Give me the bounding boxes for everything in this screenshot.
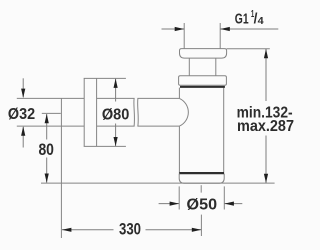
pipe centerline tick	[42, 112, 61, 114]
Ø80 top arrowhead (up)	[114, 79, 118, 88]
Ø50 right arrowhead (left)	[224, 202, 234, 206]
pipe break gap	[135, 98, 138, 127]
Ø80 top extension line / flange top edge	[84, 77, 126, 79]
330 right arrowhead (right)	[192, 228, 202, 232]
svg-text:G1: G1	[235, 11, 249, 28]
bottle shoulder thick line	[180, 86, 225, 88]
80 dim line upper	[46, 114, 48, 140]
Ø80 bottom extension line / flange bottom edge	[84, 145, 126, 147]
slip nut	[179, 76, 227, 86]
svg-text:80: 80	[38, 141, 54, 159]
Ø80 dim line lower	[115, 124, 117, 147]
inlet pipe end bulge	[179, 98, 188, 126]
Ø50 center leader upper	[200, 185, 202, 192]
Ø32 dim line bottom	[22, 127, 24, 148]
svg-text:Ø32: Ø32	[8, 106, 35, 123]
Ø50 left extension line	[178, 186, 180, 209]
bottle bottom cap	[179, 174, 224, 184]
80 bottom arrowhead (down)	[45, 174, 49, 183]
80 top arrowhead (up)	[45, 114, 49, 123]
inlet pipe horizontal (bottom edge with left extension)	[17, 125, 180, 127]
min/max bottom arrowhead (down)	[264, 174, 268, 183]
tailpipe left wall	[183, 23, 185, 49]
G1 1/4 dim line right	[220, 28, 278, 30]
svg-text:Ø50: Ø50	[187, 197, 218, 214]
neck left wall	[188, 58, 190, 76]
Ø50 left arrowhead (right)	[170, 202, 180, 206]
svg-text:Ø80: Ø80	[102, 106, 130, 123]
G1 1/4 right arrowhead	[220, 27, 230, 31]
min/max dim line upper	[265, 49, 267, 101]
min/max dim line lower	[265, 136, 267, 183]
neck right wall	[215, 58, 217, 76]
Ø32 dim line top	[22, 78, 24, 97]
bottle left wall lower segment	[178, 126, 180, 173]
baseline reference	[41, 182, 275, 184]
pipe break line left	[133, 98, 136, 126]
tailpipe right wall	[219, 23, 221, 49]
upper flange disc	[180, 49, 227, 59]
Ø50 dim line right	[225, 203, 243, 205]
svg-text:4: 4	[258, 15, 264, 27]
Ø32 top arrowhead (down)	[21, 89, 25, 98]
min/max top arrowhead (up)	[264, 49, 268, 58]
G1 1/4 left arrowhead	[175, 27, 185, 31]
wall flange rosette right edge	[96, 78, 98, 146]
330 dim line left segment	[62, 229, 114, 231]
min/max top extension line	[227, 48, 270, 50]
Ø80 bottom arrowhead (down)	[114, 137, 118, 146]
330 dim line right segment	[146, 229, 202, 231]
Ø32 bottom arrowhead (up)	[21, 126, 25, 135]
bottle lower thick line	[179, 172, 224, 174]
Ø50 right extension line	[223, 186, 225, 209]
80 dim line lower	[46, 158, 48, 183]
svg-text:330: 330	[119, 221, 141, 239]
Ø50 dim line left	[159, 203, 179, 205]
bottle right wall	[223, 88, 225, 173]
wall flange rosette left edge	[83, 78, 85, 146]
inlet pipe left end	[60, 98, 62, 126]
left extension line (pipe end, down to 330 dim)	[60, 126, 62, 238]
inlet pipe horizontal (top edge with left extension)	[17, 97, 180, 99]
Ø50 center extension lower	[200, 215, 202, 236]
330 left arrowhead (left)	[62, 228, 72, 232]
G1 1/4 dim line left	[162, 28, 185, 30]
Ø80 dim line upper	[115, 79, 117, 102]
wall flange rosette fill	[84, 79, 96, 146]
bottle left wall upper segment	[178, 88, 180, 99]
svg-text:max.287: max.287	[237, 118, 294, 135]
pipe break line right	[137, 98, 140, 126]
